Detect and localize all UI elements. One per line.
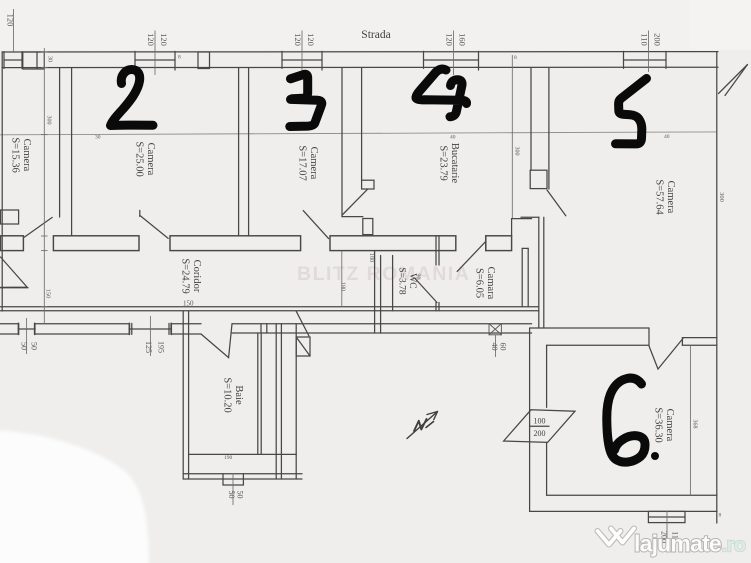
svg-text:30: 30 [95, 135, 101, 141]
svg-text:150: 150 [183, 300, 194, 308]
svg-text:CameraS=57.64: CameraS=57.64 [654, 179, 677, 215]
window W4 bucatarie [424, 51, 479, 70]
digit 2 [111, 70, 154, 126]
svg-text:195: 195 [157, 341, 166, 353]
baie far right pair [261, 324, 296, 479]
dim leader 40x60 [495, 335, 497, 357]
dim leader window W5 [648, 31, 650, 73]
svg-text:CamaraS=6.05: CamaraS=6.05 [474, 267, 497, 300]
pier box room1 top wall [23, 52, 45, 69]
wall top exterior outer line [2, 51, 718, 53]
svg-text:50: 50 [227, 491, 236, 499]
dim leader room6 window [666, 511, 668, 550]
watermark lajumate.ro [598, 529, 746, 557]
svg-text:40: 40 [490, 343, 499, 351]
porch door leaf [0, 257, 28, 288]
svg-text:150: 150 [45, 289, 52, 299]
digit 6 dot [651, 452, 659, 460]
north arrow [407, 412, 438, 439]
svg-text:368: 368 [692, 420, 698, 429]
dim line room6 interior [689, 345, 691, 495]
digit 4 [416, 69, 467, 117]
ramp parallelogram 100-200 [504, 410, 575, 443]
svg-text:8: 8 [514, 55, 517, 61]
svg-text:300: 300 [513, 147, 519, 156]
dim vertical line corridor x342 [341, 251, 343, 307]
svg-text:110: 110 [640, 33, 650, 45]
svg-text:BucatarieS=23.79: BucatarieS=23.79 [438, 143, 461, 184]
window W2 room2 [135, 51, 175, 70]
dim leader W7 [149, 316, 151, 356]
logo chevron left [598, 531, 621, 545]
window W7 south [129, 323, 172, 334]
svg-text:CoridorS=24.79: CoridorS=24.79 [180, 258, 203, 293]
wall wc right [436, 236, 439, 311]
digit 6 [607, 378, 645, 462]
wall room5-room6 [530, 328, 717, 345]
south wall lower [0, 324, 532, 334]
room6 bottom wall [530, 495, 717, 511]
dim leader W6 [26, 318, 28, 354]
svg-text:30: 30 [47, 56, 53, 62]
dim leader window W3 [301, 31, 303, 76]
dim vertical line left x44 [41, 48, 48, 324]
svg-text:CameraS=25.00: CameraS=25.00 [134, 141, 157, 176]
dim vertical line bucatarie x512 [511, 55, 513, 218]
pier box room2 top wall [198, 52, 210, 69]
wall wc left [375, 251, 393, 333]
door camara leaf [457, 236, 486, 272]
window W6 south [18, 323, 35, 334]
svg-text:CameraS=17.07: CameraS=17.07 [297, 145, 320, 180]
svg-text:180: 180 [340, 282, 346, 291]
wall room2-room3 [239, 68, 249, 236]
window W5 room5 [624, 51, 667, 68]
svg-text:160: 160 [458, 33, 468, 46]
svg-text:8: 8 [178, 55, 181, 61]
svg-text:120: 120 [6, 14, 16, 27]
svg-text:50: 50 [236, 491, 245, 499]
svg-text:100: 100 [534, 417, 546, 426]
dim leader window W4 [453, 31, 455, 76]
svg-text:40: 40 [664, 134, 670, 140]
wall room3-bucatarie [342, 68, 374, 235]
svg-text:200: 200 [534, 429, 546, 438]
wall top exterior inner line [2, 66, 718, 68]
digit 5 [616, 79, 647, 144]
svg-text:200: 200 [653, 33, 663, 46]
baie bottom walls [183, 454, 302, 479]
corridor top wall segment D [330, 236, 456, 251]
wall bucatarie-room5 [530, 68, 549, 189]
corridor bottom wall [0, 307, 539, 311]
porch upper box left [1, 210, 19, 224]
dim leader window W2 [154, 31, 156, 76]
digit 3 [290, 74, 322, 126]
svg-text:8: 8 [719, 513, 722, 519]
window W3 room3 [282, 51, 322, 70]
svg-text:.ro: .ro [722, 535, 746, 557]
corridor top wall segment A [1, 236, 24, 251]
corridor top wall segment F [486, 219, 532, 251]
svg-text:300: 300 [46, 116, 52, 125]
dim leader window W1 [13, 9, 15, 52]
svg-text:BLITZ ROMANIA: BLITZ ROMANIA [297, 263, 470, 285]
svg-text:125: 125 [144, 341, 153, 353]
door room1 leaf [24, 217, 52, 237]
svg-text:180: 180 [368, 253, 374, 262]
door bucatarie to room5 leaf [521, 190, 566, 217]
window 40x60 back [489, 324, 501, 335]
wall camara-room5 [522, 248, 528, 306]
window baie bottom [223, 474, 243, 485]
svg-text:CameraS=36.30: CameraS=36.30 [653, 407, 676, 442]
box with X right of baie [296, 311, 310, 356]
svg-text:120: 120 [146, 33, 156, 46]
svg-text:lajumate: lajumate [634, 531, 721, 557]
wall room1-room2 [60, 68, 72, 236]
door wc leaf [416, 279, 438, 303]
wall left exterior [1, 52, 3, 311]
wall right exterior [716, 52, 718, 523]
window room6 bottom [648, 511, 685, 522]
svg-text:40: 40 [450, 135, 456, 141]
door room3 leaf [303, 211, 328, 239]
svg-text:50: 50 [30, 342, 39, 350]
window W1 room1 [4, 52, 22, 69]
svg-text:Strada: Strada [361, 29, 390, 41]
corridor top wall segment B [53, 236, 139, 251]
svg-text:120: 120 [159, 33, 169, 46]
svg-text:120: 120 [293, 33, 303, 46]
door exterior top right leaf [719, 65, 748, 96]
big handwritten digits [111, 69, 647, 462]
door baie leaf V [201, 324, 232, 358]
svg-text:190: 190 [224, 455, 233, 461]
svg-text:120: 120 [445, 33, 455, 46]
wall room6 upper left pair [539, 217, 544, 328]
dim leader baie window [232, 473, 234, 505]
svg-text:120: 120 [306, 33, 316, 46]
door room2 leaf [140, 210, 168, 238]
svg-text:300: 300 [718, 192, 725, 202]
room labels [10, 137, 677, 442]
svg-text:50: 50 [20, 342, 29, 350]
baie inner right pair [258, 333, 261, 454]
logo chevron right [611, 529, 634, 543]
door bucatarie leaf [342, 189, 367, 215]
svg-text:60: 60 [499, 343, 508, 351]
door room6 leaf V [649, 338, 683, 369]
svg-text:CameraS=15.36: CameraS=15.36 [10, 137, 33, 172]
corridor top wall segment C [170, 236, 301, 251]
room6 left wall [530, 328, 547, 511]
baie left wall [183, 311, 188, 479]
section fold line y=134 [0, 132, 717, 135]
